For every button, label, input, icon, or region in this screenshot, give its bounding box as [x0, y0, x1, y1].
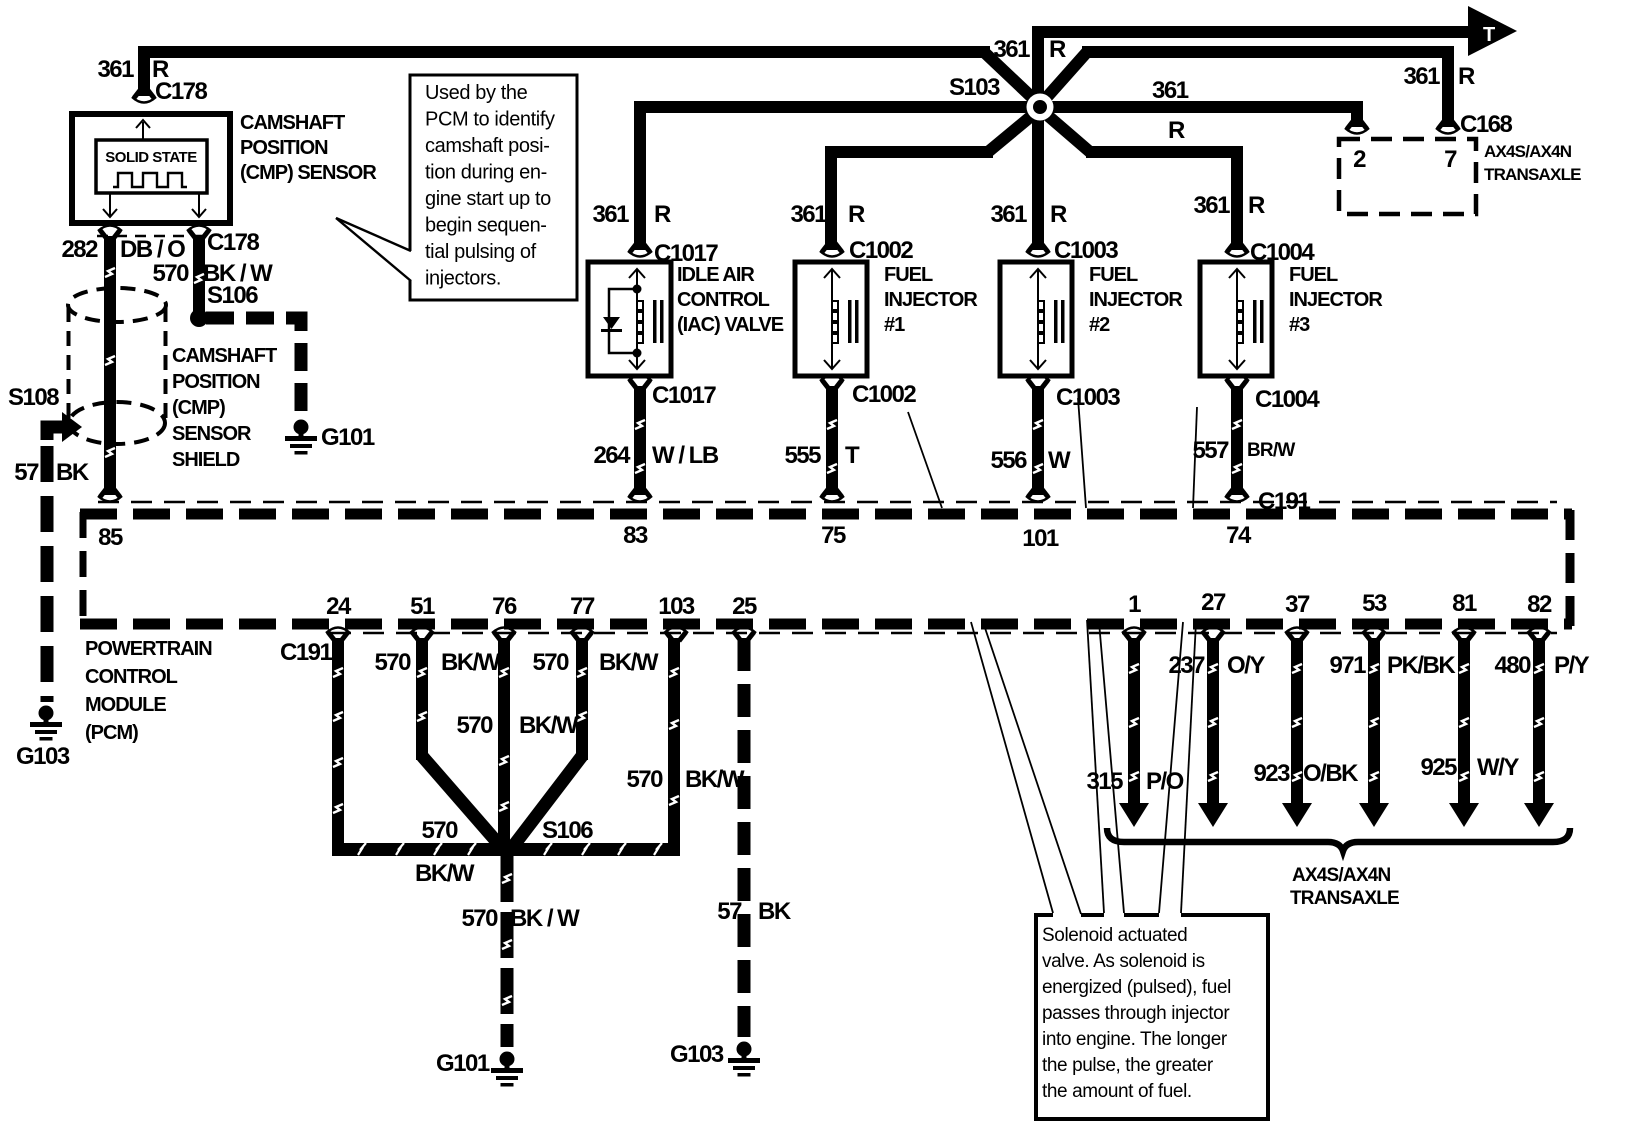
connector C1004 below fuel injector 3: [1225, 376, 1249, 390]
connector C1003 below fuel injector 2: [1026, 376, 1050, 390]
svg-text:S106: S106: [542, 817, 593, 844]
svg-text:PCM to identify: PCM to identify: [425, 109, 555, 131]
wire 361 diagonal NW into S103: [984, 52, 1041, 106]
svg-text:BK: BK: [758, 898, 792, 925]
svg-text:C191: C191: [1258, 488, 1311, 515]
connector C168 pin 2: [1345, 120, 1369, 134]
svg-text:R: R: [848, 201, 865, 228]
note box: Solenoid actuated valve: [1034, 913, 1270, 1121]
svg-text:57: 57: [717, 898, 742, 925]
connector C191 pin 85: [98, 488, 122, 502]
svg-text:SHIELD: SHIELD: [172, 449, 240, 471]
svg-text:CONTROL: CONTROL: [85, 666, 178, 688]
svg-text:Used by the: Used by the: [425, 82, 528, 104]
label 361 R (S103 top): [993, 36, 1066, 63]
ground G103 (left): [30, 706, 62, 741]
IAC valve internals: [601, 269, 664, 369]
wire 282 DB/O: [104, 236, 116, 495]
svg-text:557: 557: [1192, 437, 1229, 464]
wire to transaxle pin at x=1464: [1449, 638, 1479, 827]
labels pins 2 and 7: [1353, 146, 1457, 173]
callout line to C1004: [1193, 407, 1197, 508]
svg-text:TRANSAXLE: TRANSAXLE: [1290, 888, 1399, 909]
svg-text:81: 81: [1452, 590, 1477, 617]
svg-text:570: 570: [374, 649, 411, 676]
svg-text:7: 7: [1444, 146, 1457, 173]
connector C191 pin 24 (bottom): [326, 628, 350, 642]
svg-text:361: 361: [790, 201, 827, 228]
svg-text:tion during en-: tion during en-: [425, 162, 547, 184]
wire 361 horizontal S103 to C168 pin 2: [1040, 101, 1363, 113]
svg-text:S106: S106: [207, 282, 258, 309]
svg-text:FUEL: FUEL: [1089, 264, 1138, 286]
label CAMSHAFT POSITION (CMP) SENSOR SHIELD: [172, 345, 277, 471]
splice S103 node: [1027, 94, 1054, 121]
svg-text:tial pulsing of: tial pulsing of: [425, 241, 537, 263]
svg-text:BK/W: BK/W: [415, 860, 475, 887]
connector C1017 at IAC valve: [628, 243, 652, 257]
label FUEL INJECTOR #2: [1089, 264, 1183, 336]
svg-text:361: 361: [993, 36, 1030, 63]
svg-text:2: 2: [1353, 146, 1366, 173]
svg-text:INJECTOR: INJECTOR: [1289, 289, 1383, 311]
svg-text:POSITION: POSITION: [172, 371, 260, 393]
CMP sensor shield S108 (dashed cylinder): [68, 288, 166, 444]
svg-text:C178: C178: [207, 229, 260, 256]
wire to transaxle pin at x=1297: [1282, 638, 1312, 827]
wire 361 horizontal to fuel injector 3 drop: [1086, 146, 1243, 158]
label 57 BK (pin 25): [717, 898, 792, 925]
connector C191 pin 83: [628, 488, 652, 502]
ground G103 (pin 25): [728, 1042, 760, 1077]
svg-text:the pulse, the greater: the pulse, the greater: [1042, 1055, 1214, 1076]
svg-text:315: 315: [1086, 768, 1123, 795]
svg-text:CONTROL: CONTROL: [677, 289, 770, 311]
svg-text:570: 570: [626, 766, 663, 793]
svg-text:G101: G101: [321, 424, 375, 451]
svg-text:361: 361: [990, 201, 1027, 228]
label 570 BK/W (pin 103): [626, 766, 744, 793]
wire 570 BK/W splice to G101: [502, 856, 512, 1047]
svg-text:282: 282: [61, 236, 98, 263]
svg-text:G103: G103: [16, 743, 70, 770]
connector C191 pin 81 (bottom): [1452, 628, 1476, 642]
connector C191 pin 51 (bottom): [410, 628, 434, 642]
svg-text:O/BK: O/BK: [1303, 760, 1359, 787]
wire 361 diagonal SE from S103: [1039, 108, 1090, 152]
connector C178 pin (wire 570): [187, 226, 211, 240]
svg-text:82: 82: [1527, 591, 1552, 618]
svg-text:75: 75: [821, 522, 846, 549]
svg-text:INJECTOR: INJECTOR: [1089, 289, 1183, 311]
svg-text:P/O: P/O: [1146, 768, 1184, 795]
label 555 T: [784, 442, 860, 469]
svg-text:237: 237: [1168, 652, 1205, 679]
svg-text:(CMP) SENSOR: (CMP) SENSOR: [240, 162, 377, 184]
label AX4S/AX4N TRANSAXLE: [1484, 142, 1581, 184]
svg-text:76: 76: [492, 593, 517, 620]
wire 361 horizontal S103 to IAC drop: [634, 101, 1040, 113]
svg-text:361: 361: [1193, 192, 1230, 219]
wire to transaxle pin at x=1213: [1198, 638, 1228, 827]
wire 361 diagonal SW from S103: [988, 108, 1041, 152]
svg-text:570: 570: [421, 817, 458, 844]
label 570 S106 (splice): [421, 817, 593, 844]
svg-text:TRANSAXLE: TRANSAXLE: [1484, 165, 1581, 184]
connector C178 (CMP sensor feed): [132, 89, 156, 103]
svg-text:83: 83: [623, 522, 648, 549]
svg-text:CAMSHAFT: CAMSHAFT: [240, 112, 345, 134]
svg-text:923: 923: [1253, 760, 1290, 787]
svg-text:PK/BK: PK/BK: [1387, 652, 1456, 679]
solid state module box: [96, 140, 207, 193]
connector C191 pin 27 (bottom): [1201, 628, 1225, 642]
splice S106 (ground bus): [498, 840, 516, 858]
label 361 R (fuel injector 2 feed): [990, 201, 1067, 228]
svg-text:POWERTRAIN: POWERTRAIN: [85, 638, 212, 660]
svg-text:camshaft posi-: camshaft posi-: [425, 135, 549, 157]
svg-text:CAMSHAFT: CAMSHAFT: [172, 345, 277, 367]
label 570 BK/W (pin 76): [456, 712, 578, 739]
label 925 W/Y: [1420, 754, 1519, 781]
wire 57 BK tap from shield: [47, 412, 82, 442]
wire 361 horizontal to fuel injector 1 drop: [825, 146, 993, 158]
fuel injector 2 box: [1000, 262, 1072, 376]
connector C1002 at fuel injector 1: [820, 243, 844, 257]
callout line to C1003: [1078, 398, 1086, 508]
wire below fuel injector 2 to PCM: [1032, 386, 1044, 495]
svg-text:FUEL: FUEL: [1289, 264, 1338, 286]
label 361 R (fuel injector 3 feed): [1193, 192, 1265, 219]
wire 570 BK/W pin 24: [332, 638, 344, 850]
label 923 O/BK: [1253, 760, 1359, 787]
svg-text:POSITION: POSITION: [240, 137, 328, 159]
wire 57 BK pin 25 dashed: [738, 638, 751, 1037]
svg-text:BK: BK: [56, 459, 90, 486]
wire to transaxle pin at x=1539: [1524, 638, 1554, 827]
connector C178 dashed separator below sensor: [97, 235, 212, 237]
svg-text:BK / W: BK / W: [510, 905, 580, 932]
svg-text:MODULE: MODULE: [85, 694, 166, 716]
label 480 P/Y: [1494, 652, 1589, 679]
fuel injector 1 box: [795, 262, 867, 376]
powertrain control module (PCM) dashed box: [80, 510, 1572, 628]
connector C191 pin 25 (bottom): [732, 628, 756, 642]
svg-text:C1002: C1002: [852, 381, 916, 408]
svg-text:57: 57: [14, 459, 39, 486]
svg-text:INJECTOR: INJECTOR: [884, 289, 978, 311]
svg-text:T: T: [1483, 24, 1495, 46]
fuel injector 1 internals: [824, 269, 859, 369]
label 556 W: [990, 447, 1071, 474]
wire: C168 pin2 drop: [1351, 101, 1363, 127]
wire to transaxle pin at x=1374: [1359, 638, 1389, 827]
svg-text:74: 74: [1226, 522, 1252, 549]
svg-text:the amount of fuel.: the amount of fuel.: [1042, 1081, 1192, 1102]
svg-text:injectors.: injectors.: [425, 268, 501, 290]
wire 361 diagonal NE from S103: [1039, 52, 1087, 106]
svg-text:570: 570: [152, 260, 189, 287]
arrow inside sensor box (up): [136, 120, 150, 140]
label 264 W/LB: [593, 442, 718, 469]
svg-text:555: 555: [784, 442, 821, 469]
svg-text:valve. As solenoid is: valve. As solenoid is: [1042, 951, 1205, 972]
fuel injector 2 internals: [1030, 269, 1065, 369]
note box 2 text: [1042, 925, 1231, 1102]
C168 AX4S/AX4N transaxle box (dashed): [1339, 139, 1476, 214]
svg-text:361: 361: [592, 201, 629, 228]
svg-text:AX4S/AX4N: AX4S/AX4N: [1484, 142, 1572, 161]
svg-text:SENSOR: SENSOR: [172, 423, 252, 445]
svg-text:S108: S108: [8, 384, 59, 411]
off-page arrow T: [1468, 6, 1517, 56]
label 315 P/O: [1086, 768, 1183, 795]
svg-text:#3: #3: [1289, 314, 1310, 336]
svg-text:556: 556: [990, 447, 1027, 474]
label 361 R C168: [1403, 63, 1512, 138]
svg-text:P/Y: P/Y: [1554, 652, 1590, 679]
wire below fuel injector 3 to PCM: [1231, 386, 1243, 495]
brace (transaxle group): [1107, 828, 1570, 851]
svg-text:(PCM): (PCM): [85, 722, 138, 744]
wire: C168 pin7 drop: [1442, 46, 1454, 127]
wire: pin 51 diagonal to splice: [422, 756, 503, 849]
IAC valve box: [588, 262, 671, 376]
wire 361 R drop to CMP sensor connector C178: [138, 46, 150, 96]
label 237 O/Y: [1168, 652, 1265, 679]
camshaft position (CMP) sensor box: [72, 114, 230, 223]
label 570 BK/W (pin 51): [374, 649, 500, 676]
wire below IAC valve to PCM: [634, 386, 646, 495]
svg-text:1: 1: [1128, 591, 1141, 618]
svg-text:IDLE AIR: IDLE AIR: [677, 264, 755, 286]
label 971 PK/BK: [1329, 652, 1456, 679]
svg-text:AX4S/AX4N: AX4S/AX4N: [1292, 865, 1390, 886]
connector C191 pin 37 (bottom): [1285, 628, 1309, 642]
svg-text:energized (pulsed), fuel: energized (pulsed), fuel: [1042, 977, 1231, 998]
svg-text:W / LB: W / LB: [652, 442, 719, 469]
svg-text:SOLID STATE: SOLID STATE: [105, 149, 197, 166]
svg-text:971: 971: [1329, 652, 1366, 679]
svg-text:480: 480: [1494, 652, 1531, 679]
svg-text:(IAC) VALVE: (IAC) VALVE: [677, 314, 784, 336]
ground G101 (shield drain): [285, 420, 317, 455]
connector C191 pin 76 (bottom): [492, 628, 516, 642]
connector C191 pin 74: [1225, 488, 1249, 502]
svg-text:C168: C168: [1460, 111, 1513, 138]
svg-text:570: 570: [456, 712, 493, 739]
connector C191 pin 77 (bottom): [570, 628, 594, 642]
label 361 / R (S103 to C168-2): [1152, 77, 1189, 144]
label 361 R (fuel injector 1 feed): [790, 201, 865, 228]
svg-text:R: R: [1248, 192, 1265, 219]
label 361 R C178 top left: [97, 56, 207, 105]
label 361 R (IAC valve feed): [592, 201, 671, 228]
svg-text:begin sequen-: begin sequen-: [425, 215, 547, 237]
callout lines from note box (pair 2): [1087, 620, 1124, 913]
wire 570 BK/W pin 76: [498, 638, 510, 846]
label 570 BK/W (pin 77): [532, 649, 658, 676]
svg-text:C1017: C1017: [652, 382, 716, 409]
note box: Used by the PCM: [336, 75, 577, 300]
svg-text:W/Y: W/Y: [1477, 754, 1519, 781]
svg-text:BK/W: BK/W: [685, 766, 745, 793]
connector C191 pin 75: [820, 488, 844, 502]
svg-text:264: 264: [593, 442, 631, 469]
svg-text:103: 103: [658, 593, 695, 620]
connector C1003 at fuel injector 2: [1026, 243, 1050, 257]
svg-text:925: 925: [1420, 754, 1457, 781]
label FUEL INJECTOR #3: [1289, 264, 1383, 336]
svg-text:R: R: [1458, 63, 1475, 90]
svg-text:570: 570: [461, 905, 498, 932]
svg-text:85: 85: [98, 524, 123, 551]
svg-text:27: 27: [1201, 589, 1226, 616]
svg-text:53: 53: [1362, 590, 1387, 617]
svg-text:361: 361: [1152, 77, 1189, 104]
wire: pin 77 diagonal to splice: [511, 756, 582, 849]
svg-text:BK/W: BK/W: [519, 712, 579, 739]
svg-text:BK/W: BK/W: [599, 649, 659, 676]
label POWERTRAIN CONTROL MODULE (PCM): [85, 638, 212, 744]
wire: S103 vertical (up to T-bus, down to fuel injector 2): [1032, 26, 1044, 250]
connector C191 pin 82 (bottom): [1527, 628, 1551, 642]
svg-text:R: R: [1049, 36, 1066, 63]
svg-text:25: 25: [732, 593, 757, 620]
connector C191 pin 101: [1026, 488, 1050, 502]
wire 361 R horizontal bus from CMP sensor drop to S103: [138, 46, 990, 58]
wire 570 BK/W pin 103: [668, 638, 680, 846]
svg-text:24: 24: [326, 593, 352, 620]
wire 570 BK/W bus to splice S106: [332, 843, 680, 856]
svg-text:77: 77: [570, 593, 595, 620]
fuel injector 3 box: [1200, 262, 1272, 376]
connector C1004 at fuel injector 3: [1225, 243, 1249, 257]
svg-text:passes through injector: passes through injector: [1042, 1003, 1230, 1024]
wire 570 BK/W pin 51: [416, 638, 428, 760]
labels 57 BK: [14, 459, 90, 486]
svg-text:(CMP): (CMP): [172, 397, 225, 419]
wire 570 BK/W to splice: [193, 236, 205, 312]
labels 282 DB/O C178 570 BK/W S106: [61, 229, 273, 309]
svg-text:#2: #2: [1089, 314, 1110, 336]
svg-text:G101: G101: [436, 1050, 490, 1077]
connector C1002 below fuel injector 1: [820, 376, 844, 390]
wire 361 drop to IAC valve: [634, 101, 646, 250]
arrows inside sensor box (down to pins): [103, 193, 206, 217]
label CAMSHAFT POSITION (CMP) SENSOR: [240, 112, 377, 184]
connector C168 pin 7: [1436, 120, 1460, 134]
wire to transaxle pin at x=1134: [1119, 638, 1149, 827]
svg-text:S103: S103: [949, 74, 1000, 101]
svg-text:C1004: C1004: [1255, 386, 1320, 413]
svg-text:#1: #1: [884, 314, 905, 336]
svg-text:gine start up to: gine start up to: [425, 188, 551, 210]
svg-text:into engine. The longer: into engine. The longer: [1042, 1029, 1228, 1050]
svg-text:101: 101: [1022, 525, 1059, 552]
wire 361 R top bus from S103 to transaxle arrow T: [1032, 26, 1472, 38]
connector C191 thin dashed line (PCM top): [98, 501, 1557, 503]
wire below fuel injector 1 to PCM: [826, 386, 838, 495]
connector C1017 below IAC valve: [628, 376, 652, 390]
label AX4S/AX4N TRANSAXLE (bottom): [1290, 865, 1399, 909]
svg-text:R: R: [654, 201, 671, 228]
svg-text:570: 570: [532, 649, 569, 676]
svg-text:FUEL: FUEL: [884, 264, 933, 286]
wire 57 BK dashed to G103: [41, 446, 54, 702]
note box 1 text: [425, 82, 555, 290]
callout line to C1002: [908, 412, 942, 508]
connector C178 pin (wire 282): [98, 226, 122, 240]
svg-text:37: 37: [1285, 591, 1310, 618]
connector C191 pin 103 (bottom): [664, 628, 688, 642]
wire 570 BK/W pin 77: [576, 638, 588, 760]
svg-text:BK/W: BK/W: [441, 649, 501, 676]
svg-text:C178: C178: [155, 78, 208, 105]
wire 570 dashed to G101: [206, 318, 301, 412]
svg-text:O/Y: O/Y: [1227, 652, 1265, 679]
connector C191 pin 53 (bottom): [1362, 628, 1386, 642]
svg-text:51: 51: [410, 593, 435, 620]
label 570 BK / W (to G101): [461, 905, 580, 932]
svg-text:R: R: [1050, 201, 1067, 228]
svg-text:T: T: [845, 442, 860, 469]
splice S106: [190, 309, 208, 327]
connector C191 pin 1 (bottom): [1122, 628, 1146, 642]
svg-text:BR/W: BR/W: [1247, 440, 1295, 461]
svg-text:C1003: C1003: [1056, 384, 1120, 411]
label FUEL INJECTOR #1: [884, 264, 978, 336]
wire 361 bus NE to C168 pin 7: [1082, 46, 1454, 58]
ground G101 (PCM grounds): [491, 1052, 523, 1087]
callout lines from note box (pair 1): [971, 622, 1081, 914]
svg-text:Solenoid actuated: Solenoid actuated: [1042, 925, 1187, 946]
svg-text:DB / O: DB / O: [120, 236, 185, 263]
callout lines from note box (pair 3): [1159, 622, 1196, 913]
svg-text:361: 361: [97, 56, 134, 83]
svg-text:G103: G103: [670, 1041, 724, 1068]
label IDLE AIR CONTROL (IAC) VALVE: [677, 264, 784, 336]
svg-text:R: R: [1168, 117, 1185, 144]
svg-text:C191: C191: [280, 639, 333, 666]
connector C191 thin dashed line (PCM bottom): [330, 632, 1557, 634]
svg-text:W: W: [1048, 447, 1071, 474]
fuel injector 3 internals: [1229, 269, 1264, 369]
svg-text:361: 361: [1403, 63, 1440, 90]
label 557 BR/W: [1192, 437, 1295, 464]
